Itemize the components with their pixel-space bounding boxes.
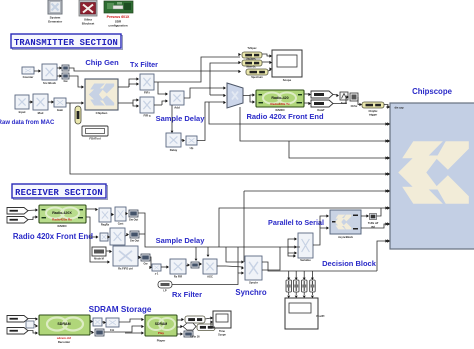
svg-text:FIR i: FIR i bbox=[144, 91, 150, 95]
svg-text:Synchro: Synchro bbox=[235, 288, 266, 297]
svg-text:Up: Up bbox=[190, 146, 194, 150]
svg-text:TRANSMITTER SECTION: TRANSMITTER SECTION bbox=[14, 38, 118, 48]
svg-text:Gw Out: Gw Out bbox=[130, 239, 139, 243]
svg-text:WaveSc: WaveSc bbox=[246, 66, 256, 69]
svg-text:RADIO: RADIO bbox=[57, 224, 67, 228]
svg-text:trigger: trigger bbox=[369, 113, 377, 117]
svg-text:SDRAM: SDRAM bbox=[57, 322, 70, 326]
svg-text:Scope: Scope bbox=[218, 333, 226, 337]
svg-text:SDRAM: SDRAM bbox=[155, 322, 168, 326]
svg-text:Play: Play bbox=[158, 331, 165, 335]
svg-text:Src Block: Src Block bbox=[43, 81, 56, 85]
svg-text:Mode M: Mode M bbox=[94, 257, 104, 261]
svg-text:Gain: Gain bbox=[57, 108, 64, 112]
svg-text:TxRx off: TxRx off bbox=[368, 221, 379, 225]
svg-text:Rx Filter: Rx Filter bbox=[172, 290, 202, 299]
svg-text:UFix 16: UFix 16 bbox=[190, 335, 200, 339]
svg-text:Spectrum: Spectrum bbox=[251, 76, 263, 79]
svg-text:ChipGen: ChipGen bbox=[96, 111, 108, 115]
svg-text:Radio-420: Radio-420 bbox=[271, 96, 288, 100]
svg-text:z-1: z-1 bbox=[155, 272, 159, 276]
svg-text:Sample Delay: Sample Delay bbox=[156, 236, 206, 245]
svg-text:Blockset: Blockset bbox=[82, 22, 95, 26]
svg-text:Radio-420X: Radio-420X bbox=[52, 211, 72, 215]
svg-text:Synchr: Synchr bbox=[249, 281, 258, 285]
svg-text:Scope: Scope bbox=[283, 78, 292, 82]
svg-text:Cast: Cast bbox=[118, 222, 124, 226]
svg-text:RADIO: RADIO bbox=[275, 108, 285, 112]
svg-text:Raw data from MAC: Raw data from MAC bbox=[0, 120, 55, 126]
svg-text:LP: LP bbox=[163, 289, 167, 293]
svg-text:Radio420x Tx: Radio420x Tx bbox=[270, 102, 290, 106]
svg-text:Parallel to Serial: Parallel to Serial bbox=[268, 218, 324, 227]
svg-text:Mod: Mod bbox=[38, 111, 44, 115]
svg-text:Cnt: Cnt bbox=[110, 328, 114, 332]
svg-text:AsyncBlock: AsyncBlock bbox=[338, 235, 353, 239]
svg-text:PostPr: PostPr bbox=[316, 314, 324, 318]
svg-text:Delay: Delay bbox=[170, 148, 178, 152]
svg-text:RECEIVER SECTION: RECEIVER SECTION bbox=[15, 188, 103, 198]
svg-text:Tx Filter: Tx Filter bbox=[130, 60, 158, 69]
svg-text:Time: Time bbox=[219, 329, 226, 333]
svg-text:ChSc: ChSc bbox=[351, 104, 358, 108]
svg-text:Gw Out: Gw Out bbox=[129, 218, 138, 222]
svg-text:din cap: din cap bbox=[394, 106, 403, 110]
svg-text:Rx FIFO ctrl: Rx FIFO ctrl bbox=[118, 267, 133, 271]
svg-text:Generator: Generator bbox=[48, 20, 63, 24]
svg-text:TxSpec: TxSpec bbox=[247, 46, 257, 50]
svg-text:Radio 420x Front End: Radio 420x Front End bbox=[13, 232, 93, 241]
svg-text:Chip Gen: Chip Gen bbox=[85, 58, 119, 67]
svg-text:SigSpec: SigSpec bbox=[246, 57, 256, 60]
svg-text:ChipSc: ChipSc bbox=[369, 109, 378, 113]
svg-text:Perseus 601X: Perseus 601X bbox=[107, 15, 130, 19]
svg-text:SDRAM Storage: SDRAM Storage bbox=[89, 305, 152, 314]
svg-text:Rx FIR: Rx FIR bbox=[174, 275, 182, 279]
svg-text:DataT: DataT bbox=[317, 108, 325, 112]
svg-text:Term: Term bbox=[341, 101, 348, 105]
svg-text:Chipscope: Chipscope bbox=[412, 87, 453, 96]
svg-text:Player: Player bbox=[157, 339, 166, 343]
svg-text:Recorder: Recorder bbox=[58, 340, 71, 344]
svg-text:Counter: Counter bbox=[23, 75, 35, 79]
svg-text:Serialize: Serialize bbox=[300, 258, 311, 262]
svg-text:Input: Input bbox=[19, 110, 26, 114]
svg-text:AGC: AGC bbox=[207, 275, 213, 279]
svg-text:configuration: configuration bbox=[108, 24, 127, 28]
svg-text:Add: Add bbox=[174, 106, 180, 110]
svg-text:Radio420x Rx: Radio420x Rx bbox=[52, 218, 72, 222]
svg-text:RegRx: RegRx bbox=[101, 223, 110, 227]
svg-text:Radio 420x Front End: Radio 420x Front End bbox=[246, 112, 324, 121]
svg-text:FIR q: FIR q bbox=[144, 114, 151, 118]
svg-text:FDATool: FDATool bbox=[89, 137, 100, 141]
svg-text:Sample Delay: Sample Delay bbox=[156, 114, 206, 123]
svg-text:Decision Block: Decision Block bbox=[322, 259, 377, 268]
